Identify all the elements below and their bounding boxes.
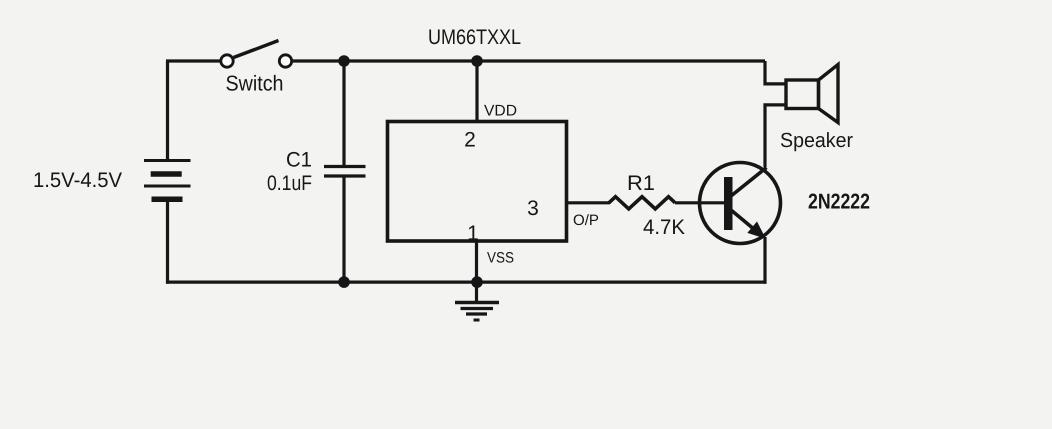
svg-text:4.7K: 4.7K [643,216,685,239]
ground bar 2 [461,307,494,310]
transistor Q1 collector stroke [731,168,767,197]
junction: top rail / VDD [471,55,483,67]
wire: pin3 to resistor [567,201,611,204]
battery BT1 plate short thick bottom [152,197,183,203]
svg-text:2N2222: 2N2222 [808,190,870,214]
svg-text:R1: R1 [627,172,655,195]
wire: VSS pin lead [475,241,478,282]
transistor Q1 circle [700,163,781,244]
wire: battery bottom lead [166,199,169,283]
resistor R1 zigzag [609,197,675,209]
transistor Q1 base bar [724,177,733,230]
wire: top rail from switch to speaker corner [292,59,765,62]
transistor Q1 emitter stroke [731,210,754,229]
switch S1 lever [234,41,279,58]
wire: top rail corner down to speaker top terminal [765,61,786,84]
wire: C1 top lead [342,61,345,167]
svg-text:Switch: Switch [226,72,284,96]
ground stem [475,282,478,302]
wire: emitter down to bottom rail [763,237,766,284]
svg-text:VDD: VDD [484,103,517,120]
svg-text:3: 3 [527,197,539,220]
svg-text:O/P: O/P [573,212,599,229]
junction: top rail / C1 [338,55,350,67]
svg-text:1.5V-4.5V: 1.5V-4.5V [33,169,122,192]
switch S1 throw circle [279,55,291,67]
wire: VDD pin lead [475,61,478,122]
ground bar 3 [466,312,487,315]
wire: bottom rail [166,281,767,284]
wire: speaker bottom terminal to collector [765,105,786,167]
ground bar 4 [474,319,480,322]
speaker LS1 body [786,80,819,109]
wire: top-left vertical (battery top lead) [166,61,169,161]
speaker LS1 cone [819,65,839,123]
wire: top rail left segment to switch [166,59,221,62]
battery BT1 plate long top [144,159,191,162]
junction: bottom rail / C1 [338,276,350,288]
svg-text:UM66TXXL: UM66TXXL [428,26,521,49]
junction: bottom rail / VSS-ground [471,276,483,288]
battery BT1 plate short thick [151,171,182,177]
svg-text:Speaker: Speaker [780,129,853,152]
wire: C1 bottom lead [342,176,345,282]
capacitor C1 bottom plate [324,174,366,177]
switch S1 pole circle [221,55,233,67]
op IC U1 UM66 body [388,122,567,242]
transistor Q1 emitter arrowhead [747,222,766,239]
svg-text:VSS: VSS [487,250,514,267]
ground bar 1 [455,301,499,305]
battery BT1 plate long lower [144,185,191,188]
capacitor C1 top plate [324,165,366,168]
wire: resistor to base [675,201,725,204]
svg-text:C1: C1 [286,149,312,172]
svg-text:0.1uF: 0.1uF [267,172,312,195]
svg-text:2: 2 [464,129,476,152]
